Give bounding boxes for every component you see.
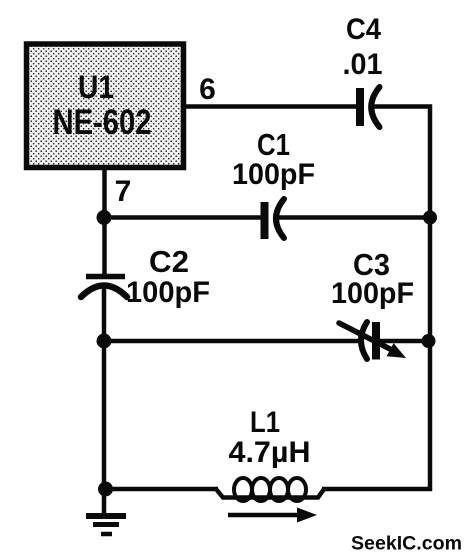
inductor L1 — [216, 478, 324, 501]
junction node left bus/C3 — [97, 334, 112, 349]
svg-text:U1: U1 — [78, 69, 114, 105]
wire C1 row left — [104, 215, 262, 220]
wire C2 to lower node — [102, 283, 107, 343]
junction node C1/right bus — [423, 211, 437, 225]
svg-text:100pF: 100pF — [331, 277, 414, 310]
wire pin 6 to C4 — [186, 104, 358, 109]
junction node pin7/C1 — [97, 210, 112, 225]
svg-text:C2: C2 — [149, 244, 189, 279]
svg-text:4.7µH: 4.7µH — [229, 436, 311, 469]
wire C3 row right — [380, 339, 430, 344]
capacitor C4 — [356, 87, 380, 127]
ground — [86, 516, 126, 534]
svg-text:6: 6 — [199, 73, 216, 106]
variable capacitor C3 — [339, 322, 406, 360]
wire left vertical lower — [102, 341, 107, 515]
current direction arrow — [228, 508, 317, 523]
wire C1 row right — [278, 215, 430, 220]
svg-text:.01: .01 — [343, 48, 383, 81]
svg-text:L1: L1 — [250, 406, 280, 439]
wire right vertical — [428, 105, 433, 492]
junction node C3/right bus — [422, 334, 436, 348]
svg-text:100pF: 100pF — [232, 158, 315, 191]
svg-text:NE-602: NE-602 — [53, 103, 152, 142]
wire C3 row left — [104, 339, 362, 344]
wire bottom left — [104, 487, 218, 492]
svg-text:100pF: 100pF — [126, 276, 210, 309]
svg-text:7: 7 — [115, 175, 132, 208]
svg-text:C1: C1 — [257, 127, 290, 162]
junction node ground — [98, 482, 113, 497]
wire C4 to top right corner — [374, 104, 432, 109]
capacitor C2 — [81, 277, 127, 298]
svg-text:SeekIC.com: SeekIC.com — [351, 533, 462, 555]
wire bottom right — [322, 487, 432, 492]
svg-text:C4: C4 — [346, 13, 381, 46]
IC U1 NE-602 body — [27, 44, 184, 168]
capacitor C1 — [261, 199, 285, 239]
wire pin 7 vertical upper — [102, 168, 107, 274]
